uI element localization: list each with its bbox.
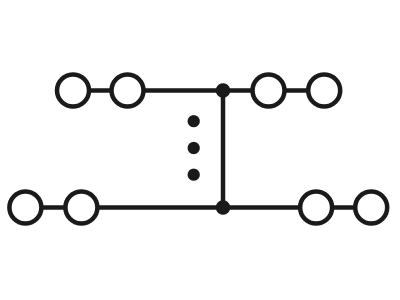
wire top bus (left pair to node A to right pair): [128, 88, 269, 93]
terminal clamp circle 2 (top row, inner left): [112, 75, 144, 107]
node B junction (bottom bus / bridge): [216, 200, 230, 214]
node A junction (top bus / bridge): [216, 83, 230, 97]
wire top-right pair link: [269, 88, 325, 93]
wire vertical bridge between node A and node B: [221, 91, 226, 208]
ellipsis dot 3 (omitted poles indicator): [188, 169, 200, 181]
terminal clamp circle 3 (top row, inner right): [253, 75, 285, 107]
terminal clamp circle 5 (bottom row, far left): [9, 192, 41, 224]
wire bottom-right pair link: [316, 205, 371, 210]
ellipsis dot 2 (omitted poles indicator): [188, 142, 200, 154]
wire top-left pair link: [73, 88, 128, 93]
wire bottom bus (left pair to node B to right pair): [81, 205, 316, 210]
terminal clamp circle 6 (bottom row, inner left): [65, 192, 97, 224]
terminal clamp circle 7 (bottom row, inner right): [300, 192, 332, 224]
terminal clamp circle 8 (bottom row, far right): [355, 192, 387, 224]
wire bottom-left pair link: [25, 205, 81, 210]
ellipsis dot 1 (omitted poles indicator): [188, 115, 200, 127]
terminal clamp circle 4 (top row, far right): [308, 75, 340, 107]
terminal clamp circle 1 (top row, far left): [57, 75, 89, 107]
